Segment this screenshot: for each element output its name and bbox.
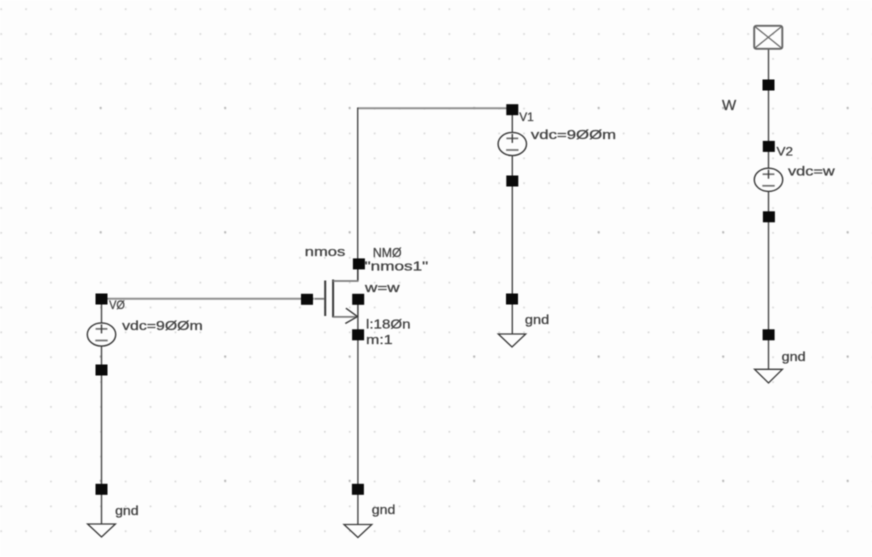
transistor NM0 (nmos) symbol	[315, 270, 359, 324]
pin square gnd below V0	[96, 484, 108, 495]
ground symbol below V1	[498, 334, 525, 347]
wire net vin: V0 plus to gate of NM0	[102, 298, 315, 300]
wire V1 column	[511, 108, 513, 334]
pin square V2 minus	[763, 211, 775, 222]
svg-text:gnd: gnd	[782, 349, 806, 364]
label V0	[109, 298, 125, 312]
svg-text:"nmos1": "nmos1"	[365, 258, 429, 273]
svg-text:VØ: VØ	[109, 298, 125, 312]
port symbol W (crossed square)	[754, 26, 782, 49]
svg-text:V2: V2	[777, 144, 794, 158]
svg-text:gnd: gnd	[525, 312, 549, 327]
svg-text:W: W	[722, 97, 737, 114]
pin square V1 plus	[506, 104, 518, 115]
label gnd below NM0 source	[372, 502, 396, 517]
voltage source V2 (vdc)	[754, 168, 782, 191]
label gnd below V2	[782, 349, 806, 364]
wire V2 column: port W down through V2 to gnd	[768, 49, 770, 370]
wire net vout: drain of NM0 up and right to V1 plus	[358, 108, 513, 282]
pin square NM0 gate	[301, 294, 313, 305]
label V2	[777, 144, 794, 158]
pin square V0 plus	[96, 294, 108, 305]
pin square NM0 drain	[353, 258, 365, 269]
pin square NM0 bulk	[352, 294, 364, 305]
pin square V1 minus	[506, 176, 518, 187]
net label W	[722, 97, 737, 114]
label nmos (master name)	[305, 244, 346, 259]
pin square port W	[763, 80, 775, 91]
svg-text:V1: V1	[519, 110, 534, 124]
label l:180n	[366, 316, 411, 331]
ground symbol below V2	[755, 369, 783, 383]
value label vdc=900m of V0	[122, 318, 203, 333]
label NM0 (instance name)	[373, 245, 402, 260]
value label vdc=w of V2	[788, 164, 835, 179]
svg-text:m:1: m:1	[366, 332, 393, 347]
svg-text:vdc=9ØØm: vdc=9ØØm	[531, 127, 616, 142]
label V1	[519, 110, 534, 124]
voltage source V0 (vdc)	[87, 323, 115, 346]
pin square gnd below V2	[763, 329, 775, 340]
wire NM0 source to gnd	[357, 317, 359, 525]
ground symbol below V0	[88, 524, 116, 537]
svg-text:vdc=9ØØm: vdc=9ØØm	[122, 318, 203, 333]
label "nmos1" (model name)	[365, 258, 429, 273]
pin square V2 plus	[763, 141, 775, 152]
pin square NM0 source	[352, 329, 364, 340]
pin square gnd below NM0	[352, 484, 364, 495]
value label vdc=900m of V1	[531, 127, 616, 142]
svg-text:w=w: w=w	[364, 280, 401, 295]
label gnd below V1	[525, 312, 549, 327]
voltage source V1 (vdc)	[498, 132, 526, 155]
svg-text:vdc=w: vdc=w	[788, 164, 835, 179]
pin square V0 minus	[96, 365, 108, 376]
pin square gnd below V1	[506, 294, 518, 305]
svg-text:gnd: gnd	[115, 503, 139, 518]
svg-text:l:18Øn: l:18Øn	[366, 316, 411, 331]
label w=w	[364, 280, 401, 295]
svg-text:nmos: nmos	[305, 244, 346, 259]
label gnd below V0	[115, 503, 139, 518]
label m:1	[366, 332, 393, 347]
wire V0 column	[101, 299, 103, 524]
svg-text:gnd: gnd	[372, 502, 396, 517]
ground symbol below NM0 source	[344, 525, 372, 538]
